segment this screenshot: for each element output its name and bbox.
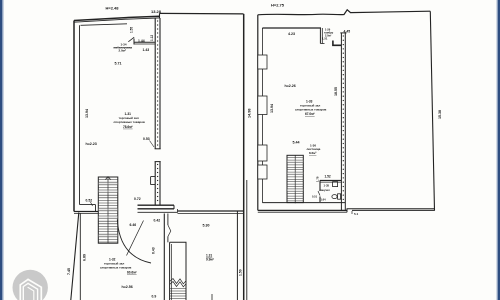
svg-text:60.6м²: 60.6м²: [127, 271, 137, 275]
toilet room: [318, 180, 341, 202]
svg-text:спортивных товаров: спортивных товаров: [114, 120, 146, 124]
door tick bottom: [211, 294, 213, 300]
landing box left of stairs: [80, 205, 96, 212]
stairs (left plan, main): [98, 177, 118, 243]
svg-text:7.45: 7.45: [67, 268, 71, 275]
svg-text:0.51: 0.51: [312, 195, 318, 199]
stairs up-arrow: [106, 177, 111, 180]
svg-text:1.44: 1.44: [138, 39, 145, 43]
wall: top inner: [262, 27, 321, 29]
dotted partition wall upper (left plan): [155, 18, 161, 149]
wall: lower face and step: [138, 209, 178, 212]
bottom wall right plan: outer double: [258, 209, 347, 211]
windows on left wall: [258, 55, 267, 179]
leader 0.52: [91, 202, 93, 206]
svg-text:5.71: 5.71: [115, 62, 122, 66]
svg-text:1.12: 1.12: [150, 35, 154, 41]
wall: left inner: [261, 28, 263, 203]
treads: [170, 289, 186, 299]
door leaf: [128, 37, 134, 42]
wall: left inner: [79, 25, 81, 204]
wall: T-bar thick segment: [138, 204, 175, 206]
narrow stairwell box (bottom): [170, 242, 186, 300]
svg-text:1.55: 1.55: [130, 27, 134, 33]
svg-text:1.52: 1.52: [325, 175, 331, 179]
wall: top right section: [160, 12, 244, 15]
svg-text:H=2.48: H=2.48: [106, 6, 120, 11]
svg-text:4.45: 4.45: [344, 30, 351, 34]
svg-text:H=2.75: H=2.75: [271, 3, 285, 8]
svg-text:спортивных товаров: спортивных товаров: [100, 266, 132, 270]
bottom wall right portion: [352, 208, 435, 210]
dots of upper partition: [157, 20, 158, 145]
wall: left outer: [73, 21, 75, 212]
svg-text:0.52: 0.52: [86, 199, 93, 203]
dotted partition wall lower segment (left plan): [151, 162, 161, 205]
dotted partition (right plan): [341, 33, 345, 210]
svg-text:1.64: 1.64: [321, 198, 327, 202]
svg-text:5.30: 5.30: [203, 224, 210, 228]
room 1-34 wall with dimension: [128, 37, 155, 44]
svg-text:78.6м²: 78.6м²: [123, 125, 133, 129]
svg-text:15.38: 15.38: [438, 110, 442, 119]
svg-text:13.94: 13.94: [85, 109, 89, 118]
sink box: [333, 182, 338, 187]
wall: separator continuing to right wall: [178, 210, 244, 212]
svg-text:1.78: 1.78: [316, 176, 320, 182]
wall: left plan top outer: [74, 16, 160, 20]
wall: left outer: [257, 15, 259, 211]
svg-text:1.51: 1.51: [322, 37, 328, 41]
wall: right outer second line (lower): [246, 180, 248, 300]
svg-text:санузел: санузел: [320, 189, 331, 192]
svg-text:спортивных товаров: спортивных товаров: [295, 108, 327, 112]
gray tread shading: [98, 182, 118, 237]
svg-text:0.53: 0.53: [143, 137, 150, 141]
svg-text:18.55: 18.55: [334, 87, 338, 96]
lower-left inner wall: [79, 214, 81, 300]
stairs (right plan): [287, 155, 303, 203]
svg-text:67.0м²: 67.0м²: [305, 112, 315, 116]
svg-text:1.50: 1.50: [239, 269, 243, 276]
wall: top inner face: [81, 24, 128, 26]
watermark circle logo: [13, 270, 48, 300]
bottom wall right plan: inner face: [258, 203, 435, 214]
svg-text:h=2.26: h=2.26: [285, 84, 296, 88]
svg-text:6.46: 6.46: [130, 223, 137, 227]
svg-text:5.44: 5.44: [293, 141, 300, 145]
svg-text:1.43: 1.43: [143, 48, 150, 52]
svg-text:5.1: 5.1: [354, 212, 359, 216]
bump rect on partition: [151, 177, 156, 185]
svg-text:13.28: 13.28: [151, 9, 162, 14]
svg-text:4.23: 4.23: [288, 32, 295, 36]
svg-text:h=2.23: h=2.23: [86, 142, 97, 146]
leader 0.53: [150, 141, 155, 148]
wall: bottom separator left segment: [74, 211, 98, 213]
bottom wall step jog: [347, 209, 352, 212]
lower-left outer slanted wall: [71, 213, 79, 300]
svg-text:8.6м²: 8.6м²: [309, 151, 316, 155]
wall: right outer (shared, full height): [243, 14, 245, 300]
lower interior wall x164: [164, 214, 171, 300]
svg-text:0.42: 0.42: [154, 219, 161, 223]
toilet: [332, 195, 337, 199]
wall: right outer: [430, 11, 434, 210]
svg-text:9.9м²: 9.9м²: [206, 258, 214, 262]
right blue bar: [498, 0, 500, 300]
door arc room 1-32: [117, 220, 151, 264]
svg-text:6.43: 6.43: [152, 247, 156, 254]
left blue bar: [0, 0, 2, 300]
wall: top jog stub: [159, 13, 161, 18]
svg-text:0.9: 0.9: [152, 295, 157, 299]
svg-text:14.98: 14.98: [248, 108, 252, 118]
leader line in 1-32: [127, 221, 144, 256]
vestibule walls: [320, 28, 346, 45]
break zigzag: [170, 279, 186, 284]
svg-text:6.89: 6.89: [83, 254, 87, 261]
svg-text:0.72: 0.72: [134, 197, 141, 201]
wall: top outer wavy: [258, 10, 431, 15]
room 1.31 right wall: [236, 212, 238, 300]
svg-text:13.94: 13.94: [270, 104, 274, 113]
svg-text:2.0м²: 2.0м²: [119, 49, 126, 53]
svg-text:1-35: 1-35: [324, 184, 330, 188]
svg-text:h=2.56: h=2.56: [122, 285, 133, 289]
